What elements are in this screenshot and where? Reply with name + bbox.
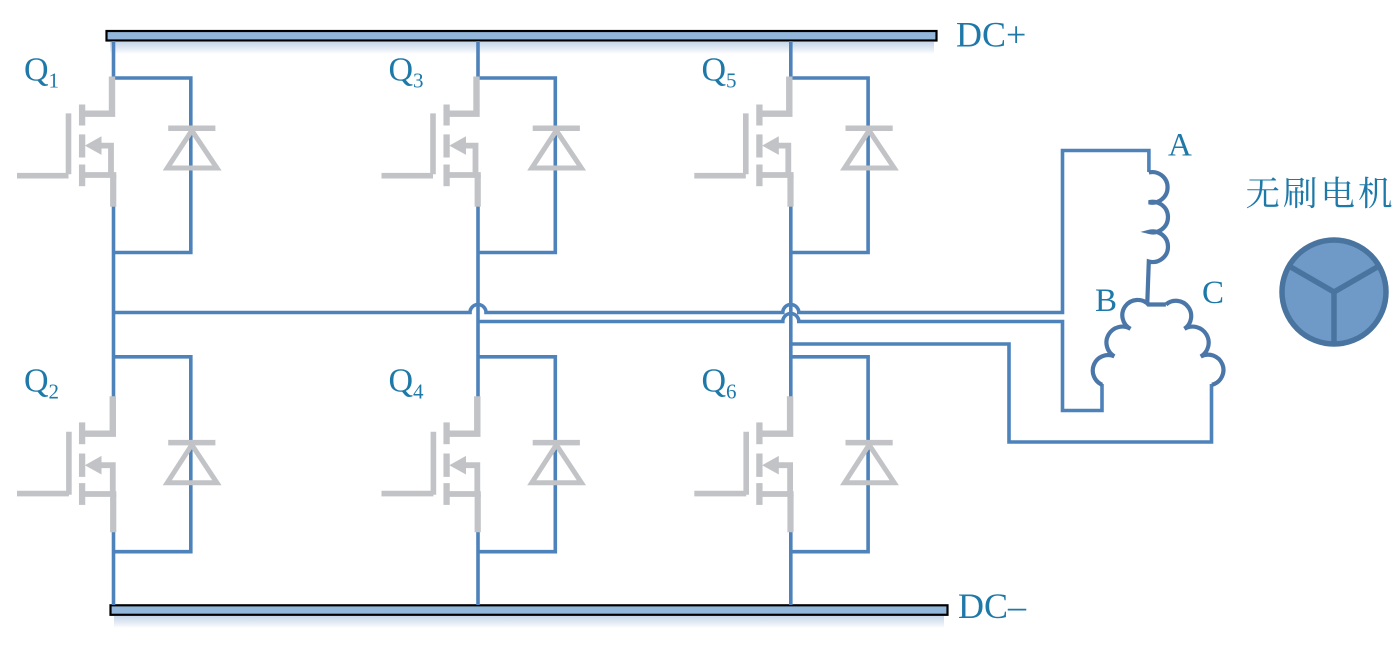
transistor Q5 [694,77,793,207]
wire: phase A from leg 1 midpoint [114,151,1149,313]
wire: leg 2 midpoint Q3 source to Q4 drain [476,206,480,398]
motor winding coil B [1093,300,1149,385]
svg-text:5: 5 [726,69,737,93]
wire: leg 3 midpoint Q5 source to Q6 drain [789,206,793,398]
transistor Q1 [17,77,116,207]
wire: diode loop bottom Q2 [114,357,191,552]
title 无刷电机 (brushless motor) [1247,176,1392,208]
DC- bus bar [111,605,948,628]
svg-text:Q: Q [389,52,414,89]
svg-text:A: A [1168,128,1192,164]
body diode D6 [845,443,895,483]
svg-text:2: 2 [49,380,60,404]
transistor Q2 [17,396,116,532]
svg-text:Q: Q [389,363,414,400]
wire: diode loop top Q1 [114,78,191,253]
svg-text:Q: Q [24,363,49,400]
wire: diode loop bottom Q4 [478,357,555,552]
wire: leg 1 Q2 source to DC- [112,531,116,605]
svg-text:DC–: DC– [958,586,1027,626]
wire: leg 1 midpoint Q1 source to Q2 drain [112,206,116,398]
label Q2 [24,363,59,404]
wire: diode loop top Q5 [791,78,868,253]
body diode D4 [532,443,582,483]
body diode D2 [167,443,217,483]
label Q3 [389,52,424,93]
transistor Q3 [382,77,481,207]
DC+ bus bar [107,31,937,54]
label Q5 [702,52,737,93]
svg-text:DC+: DC+ [956,15,1026,55]
wire: leg 1 from DC+ to Q1 drain [112,41,116,79]
body diode D1 [167,128,217,168]
wire: leg 2 from DC+ to Q3 drain [476,41,480,79]
brushless motor symbol [1282,240,1386,344]
svg-text:B: B [1095,283,1117,319]
wire: phase B from leg 2 midpoint [478,314,1102,411]
svg-text:6: 6 [726,380,737,404]
motor winding coil A [1147,172,1168,304]
svg-text:1: 1 [49,69,60,93]
transistor Q4 [382,396,481,532]
body diode D3 [532,128,582,168]
wire: phase C from leg 3 midpoint [791,344,1212,442]
wire: diode loop top Q3 [478,78,555,253]
label Q4 [389,363,425,404]
body diode D5 [845,128,895,168]
label Q1 [24,52,59,93]
label Q6 [702,363,737,404]
motor winding coil C [1166,301,1224,385]
wire: diode loop bottom Q6 [791,357,868,552]
svg-text:Q: Q [702,52,727,89]
svg-text:3: 3 [413,69,424,93]
svg-text:Q: Q [702,363,727,400]
svg-text:C: C [1202,275,1224,311]
svg-text:4: 4 [413,380,424,404]
wire: leg 3 from DC+ to Q5 drain [789,41,793,79]
transistor Q6 [694,396,793,532]
wire: leg 3 Q6 source to DC- [789,531,793,605]
wire: leg 2 Q4 source to DC- [476,531,480,605]
svg-text:Q: Q [24,52,49,89]
